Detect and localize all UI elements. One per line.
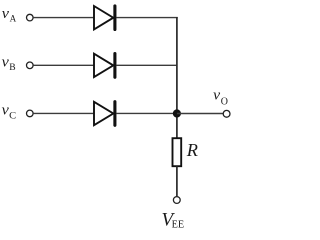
node vO output terminal [223,110,230,117]
diode D3 [94,102,115,126]
wire vertical bus [176,17,178,138]
wire vC to D3 [33,112,94,114]
svg-text:R: R [186,140,198,160]
node VEE terminal [173,197,180,204]
svg-text:EE: EE [172,219,185,230]
node vB input terminal [27,62,34,69]
svg-text:A: A [10,14,17,25]
wire D2 to bus [116,64,177,66]
wire D3 to junction [116,112,176,114]
svg-text:B: B [9,62,16,73]
junction node dot [173,109,181,117]
resistor R [173,138,182,166]
wire junction to vO [177,113,223,115]
svg-text:O: O [221,96,229,107]
node vC input terminal [27,110,34,117]
wire vA to D1 [33,17,94,19]
wire D1 to bus corner [116,17,177,19]
svg-text:C: C [9,110,16,121]
svg-text:v: v [2,6,10,22]
wire vB to D2 [33,64,94,66]
node vA input terminal [27,14,34,21]
diode D2 [94,54,115,78]
diode D1 [94,6,115,30]
svg-text:v: v [2,54,10,70]
wire resistor to VEE terminal [176,166,178,196]
svg-text:v: v [213,88,220,104]
svg-text:v: v [2,102,10,118]
